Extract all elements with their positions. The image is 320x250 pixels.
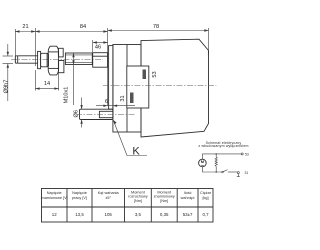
svg-text:Ø6: Ø6	[73, 110, 79, 117]
hatched terminal bar bottom	[130, 93, 134, 104]
spec table	[42, 189, 214, 223]
schematic title	[198, 141, 248, 148]
svg-text:12: 12	[52, 212, 57, 217]
body centerline	[103, 84, 216, 86]
svg-text:[Nm]: [Nm]	[134, 199, 142, 203]
dim 84	[35, 24, 107, 106]
svg-text:wahnięć: wahnięć	[181, 196, 195, 200]
svg-text:53: 53	[245, 153, 249, 157]
svg-text:0,7: 0,7	[202, 212, 209, 217]
svg-text:M10x1: M10x1	[64, 87, 70, 104]
junction dot	[216, 171, 217, 172]
dim 14	[35, 70, 58, 91]
svg-text:Napięcie: Napięcie	[47, 191, 62, 195]
threaded rod M10x1	[65, 53, 92, 65]
svg-text:[kg]: [kg]	[202, 196, 208, 200]
schematic switch	[222, 170, 238, 173]
dim diameter 6 pin	[73, 98, 83, 128]
svg-text:Napięcie: Napięcie	[72, 191, 87, 195]
dim 6	[96, 99, 135, 107]
washer top half	[58, 48, 63, 57]
svg-text:31: 31	[245, 171, 249, 175]
label plate on body	[127, 66, 149, 108]
K leader	[113, 120, 147, 158]
svg-text:znamionowe [V]: znamionowe [V]	[41, 196, 68, 200]
dim 46	[93, 40, 108, 52]
dim 78	[108, 24, 209, 54]
svg-text:3,5: 3,5	[135, 212, 142, 217]
hatched terminal bar top	[143, 70, 147, 80]
table headers	[41, 191, 212, 203]
lever pivot pin inner step	[99, 111, 113, 117]
svg-text:Ciężar: Ciężar	[200, 191, 212, 195]
motor can body	[141, 39, 209, 137]
rod end nut block	[93, 53, 108, 67]
svg-text:Kąt wahania: Kąt wahania	[98, 191, 120, 195]
mounting bracket plate	[109, 46, 113, 110]
svg-text:53±7: 53±7	[183, 212, 193, 217]
schematic bottom wire	[202, 167, 222, 172]
svg-text:Ilość: Ilość	[184, 191, 192, 195]
dim 21	[15, 24, 35, 66]
washer bottom half	[58, 61, 64, 73]
svg-text:[Nm]: [Nm]	[160, 199, 168, 203]
svg-text:K: K	[132, 146, 140, 158]
svg-text:46: 46	[95, 45, 101, 51]
svg-text:±5°: ±5°	[105, 196, 111, 200]
lever pivot pin outer	[80, 109, 113, 119]
shaft tip	[15, 56, 37, 63]
hub centerline	[76, 113, 136, 115]
dim diameter 9h7	[3, 44, 14, 101]
centerline shaft axis	[11, 59, 103, 61]
schematic resistor branch	[215, 153, 217, 172]
schematic terminal 31	[237, 171, 249, 176]
svg-text:13,5: 13,5	[75, 212, 84, 217]
svg-text:0,35: 0,35	[160, 212, 169, 217]
svg-text:53: 53	[152, 71, 158, 77]
hex nut 1	[48, 46, 58, 75]
svg-text:6: 6	[105, 99, 108, 105]
boss	[41, 53, 49, 67]
svg-text:84: 84	[80, 24, 86, 30]
shaft shoulder washer	[38, 51, 41, 68]
svg-text:31: 31	[120, 95, 126, 101]
svg-text:21: 21	[22, 24, 28, 30]
svg-text:pracy [V]: pracy [V]	[72, 196, 87, 200]
table values	[52, 212, 209, 217]
svg-text:14: 14	[44, 81, 50, 87]
svg-text:z wbudowanym wyłącznikiem: z wbudowanym wyłącznikiem	[198, 144, 248, 148]
svg-text:Ø9h7: Ø9h7	[3, 80, 9, 94]
schematic terminal 53	[241, 153, 249, 157]
schematic top wire	[202, 154, 241, 160]
svg-text:78: 78	[153, 24, 159, 30]
schematic motor M	[199, 159, 207, 169]
gear housing	[113, 45, 141, 133]
dim M10x1	[64, 53, 75, 105]
svg-text:105: 105	[105, 212, 113, 217]
